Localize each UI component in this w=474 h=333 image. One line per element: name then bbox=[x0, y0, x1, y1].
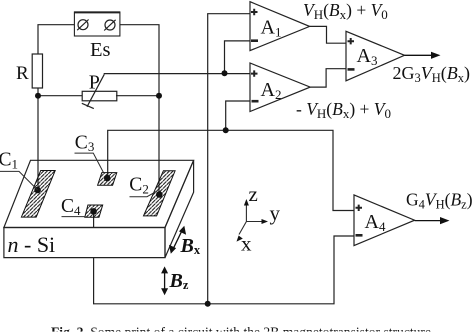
label line C4 bbox=[62, 216, 86, 218]
junction dot R-P node bbox=[35, 93, 41, 99]
svg-text:C1: C1 bbox=[0, 149, 18, 171]
wire C3 to A4 plus bbox=[108, 130, 354, 210]
op-amp A4 bbox=[354, 195, 415, 246]
svg-text:x: x bbox=[241, 232, 252, 256]
op-amp A4 minus marker bbox=[356, 234, 363, 237]
wire C4 below slab to A4 minus bbox=[94, 236, 354, 304]
contact C3 hatched bbox=[98, 173, 117, 186]
field arrow Bz bbox=[161, 266, 168, 295]
wire A1 minus to wiper node bbox=[225, 41, 251, 73]
junction dot wiper bus node bbox=[222, 70, 228, 76]
svg-text:- VH(Bx) + V0: - VH(Bx) + V0 bbox=[296, 99, 391, 121]
wire junction down to C1 bbox=[37, 96, 39, 190]
svg-text:R: R bbox=[16, 63, 29, 84]
svg-text:A3: A3 bbox=[357, 45, 378, 68]
svg-text:y: y bbox=[270, 201, 281, 225]
potentiometer P wiper bbox=[82, 74, 105, 108]
wire R bottom to junction bbox=[37, 88, 39, 96]
wire P right to node bbox=[116, 95, 159, 97]
op-amp A1 bbox=[250, 2, 310, 51]
battery Es cell circle 2 bbox=[104, 20, 115, 31]
op-amp A2 plus marker bbox=[251, 70, 258, 76]
wire A1 output to A3 plus bbox=[310, 26, 346, 43]
svg-text:P: P bbox=[89, 71, 100, 93]
white margin strip bbox=[0, 332, 474, 333]
op-amp A4 plus marker bbox=[356, 205, 363, 211]
svg-text:A4: A4 bbox=[365, 211, 386, 234]
battery Es top thick edge bbox=[74, 11, 120, 13]
slab top face bbox=[4, 160, 194, 227]
junction dot contact C2 bbox=[156, 191, 163, 198]
svg-text:Bz: Bz bbox=[169, 270, 189, 292]
label line C1 bbox=[0, 171, 38, 190]
op-amp A2 bbox=[250, 63, 310, 112]
op-amp A1 minus marker bbox=[251, 39, 258, 42]
svg-text:Bx: Bx bbox=[180, 235, 201, 257]
op-amp A3 minus marker bbox=[348, 68, 355, 71]
junction dot contact C3 bbox=[104, 175, 111, 182]
svg-text:VH(Bx) + V0: VH(Bx) + V0 bbox=[303, 0, 388, 22]
wire C4 down hidden behind face bbox=[93, 211, 95, 227]
svg-text:A1: A1 bbox=[261, 17, 282, 40]
contact C2 hatched bbox=[144, 171, 176, 216]
svg-text:Es: Es bbox=[90, 39, 111, 61]
axis arrowhead x bbox=[237, 236, 243, 242]
field arrow Bx bbox=[169, 226, 186, 254]
svg-text:G4VH(Bz): G4VH(Bz) bbox=[406, 190, 473, 212]
battery Es cell circle 1 bbox=[77, 20, 88, 31]
svg-text:n - Si: n - Si bbox=[8, 232, 56, 257]
svg-text:A2: A2 bbox=[261, 79, 282, 102]
output arrow A4 bbox=[415, 217, 450, 224]
svg-text:C2: C2 bbox=[129, 175, 149, 197]
label line C2 bbox=[130, 191, 157, 196]
op-amp A2 minus marker bbox=[252, 100, 259, 103]
junction dot C3 bus node bbox=[223, 127, 229, 133]
op-amp A1 plus marker bbox=[251, 9, 258, 15]
wire A2 minus to C3 node bbox=[226, 101, 250, 130]
wire Es right down to C2 bbox=[120, 25, 159, 195]
junction dot bottom bus node bbox=[205, 301, 211, 307]
wire A2 output to A3 minus bbox=[310, 69, 346, 87]
label line C3 bbox=[75, 153, 104, 173]
wire wiper to A2 plus input bbox=[104, 73, 250, 76]
slab front face bbox=[4, 228, 165, 258]
resistor R bbox=[32, 54, 42, 88]
svg-text:z: z bbox=[249, 182, 258, 206]
contact C4 hatched bbox=[85, 205, 103, 217]
junction dot P right node bbox=[156, 93, 162, 99]
slab right face bbox=[165, 160, 194, 257]
junction dot contact C4 bbox=[90, 208, 97, 215]
wire junction to P left bbox=[38, 95, 82, 97]
svg-text:2G3VH(Bx): 2G3VH(Bx) bbox=[393, 63, 471, 85]
op-amp A3 plus marker bbox=[348, 38, 355, 44]
output arrow A3 bbox=[405, 52, 441, 59]
wire Es left to R bbox=[38, 25, 74, 54]
junction dot contact C1 bbox=[34, 187, 41, 194]
contact C1 hatched bbox=[21, 171, 55, 218]
battery Es box bbox=[74, 12, 120, 36]
op-amp A3 bbox=[346, 31, 405, 81]
axes origin bbox=[239, 203, 265, 235]
wire bus A1 plus input down to bottom bbox=[208, 14, 250, 304]
svg-text:C4: C4 bbox=[61, 196, 81, 218]
axis arrowhead z bbox=[244, 199, 249, 206]
axis arrowhead y bbox=[262, 219, 269, 224]
potentiometer P body bbox=[82, 91, 117, 101]
svg-text:C3: C3 bbox=[75, 133, 95, 155]
